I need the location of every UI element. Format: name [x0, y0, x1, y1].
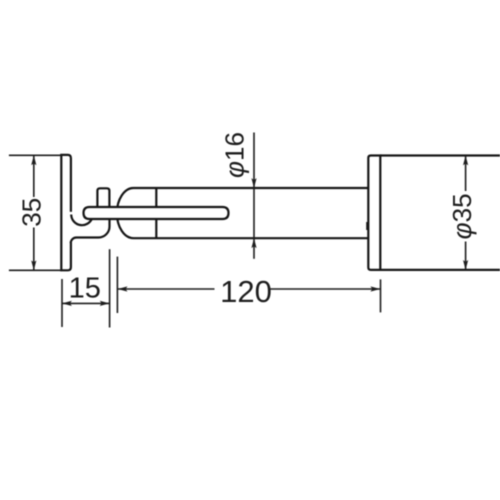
- hook tab: [97, 188, 109, 210]
- arrow phi16 bottom: [251, 238, 256, 248]
- arrow phi35 top: [463, 156, 468, 166]
- arrow 35 top: [31, 155, 36, 165]
- ext line plate bottom: [9, 269, 61, 271]
- dim line 120: [118, 288, 380, 290]
- arrow 15 left: [62, 301, 72, 306]
- arrow 120 left: [118, 286, 128, 291]
- flange tick: [366, 222, 368, 230]
- pipe left cap: [117, 188, 134, 238]
- svg-text:15: 15: [69, 273, 101, 305]
- socket body top: [380, 154, 500, 156]
- dim line 15: [62, 302, 110, 304]
- socket flange: [368, 156, 380, 270]
- wall plate: [61, 155, 71, 270]
- arrow 35 bottom: [31, 260, 36, 270]
- ext line 15 left: [61, 279, 63, 327]
- ext line 120 right: [380, 279, 382, 312]
- plate edge eraser (arm attachment): [69, 212, 73, 242]
- pipe bottom line: [134, 237, 369, 239]
- dim line phi35: [465, 156, 467, 270]
- svg-text:120: 120: [220, 274, 272, 309]
- arrow 120 right: [370, 286, 380, 291]
- ext line 15 right: [109, 249, 111, 327]
- arrow phi16 top: [251, 178, 256, 188]
- arrow phi35 bottom: [463, 260, 468, 270]
- ext line 120 left: [116, 257, 118, 313]
- arrow 15 right: [100, 301, 110, 306]
- socket body bottom: [380, 269, 500, 271]
- dim line phi16: [253, 133, 255, 259]
- hook cup arc: [71, 215, 92, 226]
- svg-text:φ16: φ16: [220, 132, 250, 178]
- svg-text:35: 35: [17, 198, 47, 227]
- svg-text:φ35: φ35: [447, 193, 477, 239]
- ext line plate top: [9, 154, 61, 156]
- pipe top line: [134, 187, 369, 189]
- pipe seam: [155, 188, 157, 238]
- inner rod: [84, 207, 229, 219]
- dim line 35: [33, 155, 35, 270]
- hook lower arm: [71, 218, 110, 243]
